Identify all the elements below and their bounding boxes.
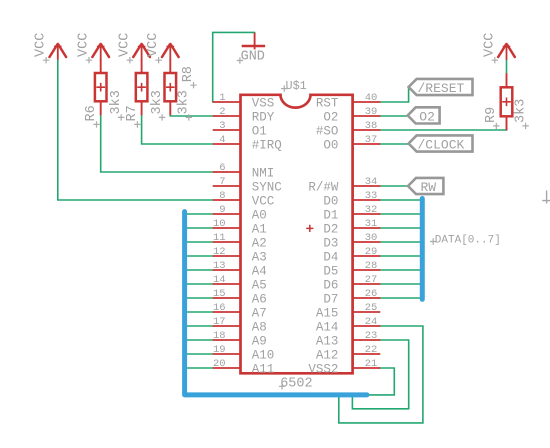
svg-text:33: 33 — [365, 190, 378, 202]
svg-text:U$1: U$1 — [286, 79, 307, 93]
svg-text:D0: D0 — [323, 194, 338, 208]
pin 23 (A13) — [316, 330, 380, 348]
svg-text:14: 14 — [213, 274, 226, 286]
power VCC symbol PWR2 — [92, 43, 109, 60]
svg-text:30: 30 — [365, 232, 378, 244]
svg-text:D7: D7 — [323, 292, 338, 306]
bus DATA[0..7] (right data bus) — [420, 199, 425, 300]
pin 2 (RDY) — [213, 106, 275, 124]
svg-text:/CLOCK: /CLOCK — [418, 138, 465, 153]
svg-text:VCC: VCC — [117, 33, 132, 57]
pin 9 (A0) — [213, 204, 267, 222]
svg-text:A0: A0 — [252, 208, 267, 222]
svg-text:/RESET: /RESET — [418, 81, 465, 96]
svg-text:RDY: RDY — [252, 110, 275, 124]
svg-text:11: 11 — [213, 232, 226, 244]
wire net pin 40 (RST) to /RESET flag — [380, 88, 408, 103]
svg-text:3: 3 — [219, 120, 225, 132]
svg-text:VSS2: VSS2 — [308, 362, 338, 376]
svg-text:2: 2 — [219, 106, 225, 118]
pin 30 (D3) — [323, 232, 380, 250]
svg-text:A11: A11 — [252, 362, 275, 376]
ground GND symbol — [242, 33, 265, 50]
wire net A8 pin to address bus — [186, 325, 213, 327]
power VCC symbol PWR5 — [498, 43, 515, 60]
wire net D7 pin to DATA bus — [380, 297, 420, 299]
svg-text:6: 6 — [219, 162, 225, 174]
svg-text:16: 16 — [213, 302, 226, 314]
wire net D5 pin to DATA bus — [380, 269, 420, 271]
pin 7 (SYNC) — [213, 176, 282, 194]
svg-text:25: 25 — [365, 302, 378, 314]
svg-text:8: 8 — [219, 190, 225, 202]
svg-text:VSS: VSS — [252, 96, 275, 110]
svg-text:15: 15 — [213, 288, 226, 300]
flag RW — [408, 178, 443, 195]
svg-text:A15: A15 — [316, 306, 339, 320]
svg-text:3k3: 3k3 — [177, 90, 192, 114]
pin 17 (A8) — [213, 316, 267, 334]
svg-text:12: 12 — [213, 246, 226, 258]
svg-text:38: 38 — [365, 120, 378, 132]
svg-text:R/#W: R/#W — [308, 180, 339, 194]
svg-text:R7: R7 — [125, 105, 140, 121]
svg-text:VCC: VCC — [34, 33, 49, 57]
pin 1 (VSS) — [213, 92, 275, 110]
svg-text:7: 7 — [219, 176, 225, 188]
svg-text:A2: A2 — [252, 236, 267, 250]
pin 3 (O1) — [213, 120, 267, 138]
svg-text:R6: R6 — [84, 105, 99, 121]
svg-text:13: 13 — [213, 260, 226, 272]
wire net R7 to pin 4 (#IRQ) — [142, 115, 213, 144]
svg-text:A3: A3 — [252, 250, 267, 264]
wire net R8 to pin 2 (RDY) — [170, 115, 212, 116]
pin 27 (D6) — [323, 274, 380, 292]
wire net D0 pin to DATA bus — [380, 199, 420, 201]
wire net pin 24 (A14) loop to bus bottom — [339, 326, 423, 423]
svg-text:22: 22 — [365, 344, 378, 356]
pin 6 (NMI) — [213, 162, 275, 180]
pin 29 (D4) — [323, 246, 380, 264]
pin 12 (A3) — [213, 246, 267, 264]
pin 10 (A1) — [213, 218, 267, 236]
wire net D1 pin to DATA bus — [380, 213, 420, 215]
pin 19 (A10) — [213, 344, 275, 362]
svg-text:26: 26 — [365, 288, 378, 300]
wire net A3 pin to address bus — [186, 255, 213, 257]
svg-text:24: 24 — [365, 316, 378, 328]
svg-text:31: 31 — [365, 218, 378, 230]
wire net A9 pin to address bus — [186, 339, 213, 341]
svg-text:A10: A10 — [252, 348, 275, 362]
svg-text:37: 37 — [365, 134, 378, 146]
wire net A11 pin to address bus — [186, 367, 213, 369]
svg-text:A13: A13 — [316, 334, 339, 348]
pin 28 (D5) — [323, 260, 380, 278]
resistor R6 — [95, 59, 107, 115]
wire net A5 pin to address bus — [186, 283, 213, 285]
svg-text:RW: RW — [421, 180, 437, 195]
svg-text:29: 29 — [365, 246, 378, 258]
power VCC symbol PWR4 — [162, 43, 179, 60]
wire net D2 pin to DATA bus — [380, 227, 420, 229]
wire GND net to pin 1 (VSS) — [213, 32, 255, 102]
svg-text:O2: O2 — [323, 110, 338, 124]
svg-text:20: 20 — [213, 358, 226, 370]
svg-text:R9: R9 — [484, 107, 499, 123]
svg-text:10: 10 — [213, 218, 226, 230]
wire net A10 pin to address bus — [186, 353, 213, 355]
wire net A4 pin to address bus — [186, 269, 213, 271]
svg-text:3k3: 3k3 — [513, 99, 528, 123]
svg-text:23: 23 — [365, 330, 378, 342]
svg-text:A6: A6 — [252, 292, 267, 306]
svg-text:O2: O2 — [419, 110, 435, 125]
svg-text:A12: A12 — [316, 348, 339, 362]
svg-text:39: 39 — [365, 106, 378, 118]
svg-text:A1: A1 — [252, 222, 267, 236]
pin 18 (A9) — [213, 330, 267, 348]
svg-text:#SO: #SO — [316, 124, 339, 138]
svg-text:D3: D3 — [323, 236, 338, 250]
wire net A6 pin to address bus — [186, 297, 213, 299]
svg-text:RST: RST — [316, 96, 339, 110]
svg-text:D1: D1 — [323, 208, 338, 222]
svg-text:6502: 6502 — [280, 377, 312, 392]
svg-text:32: 32 — [365, 204, 378, 216]
svg-text:VCC: VCC — [77, 33, 92, 57]
wire net pin 23 (A13) loop to bus bottom — [352, 340, 408, 409]
svg-text:3k3: 3k3 — [150, 90, 165, 114]
flag O2 — [408, 107, 440, 124]
pin 15 (A6) — [213, 288, 267, 306]
origin cross U1 — [306, 225, 313, 232]
wire net D6 pin to DATA bus — [380, 283, 420, 285]
pin 34 (R/#W) — [308, 176, 380, 194]
wire net pin 34 (R/#W) to RW flag — [380, 185, 408, 187]
svg-text:VCC: VCC — [482, 33, 497, 57]
wire net VCC arrow to R9 — [506, 60, 508, 74]
svg-text:9: 9 — [219, 204, 225, 216]
wire net A2 pin to address bus — [186, 241, 213, 243]
svg-text:3k3: 3k3 — [109, 90, 124, 114]
pin 33 (D0) — [323, 190, 380, 208]
pin 22 (A12) — [316, 344, 380, 362]
svg-text:A4: A4 — [252, 264, 267, 278]
wire net A0 pin to address bus — [186, 213, 213, 215]
pin 38 (#SO) — [316, 120, 380, 138]
wire net pin 21 (VSS2) to bus end — [367, 368, 394, 395]
svg-text:1: 1 — [219, 92, 225, 104]
svg-text:18: 18 — [213, 330, 226, 342]
svg-text:A5: A5 — [252, 278, 267, 292]
wire net D3 pin to DATA bus — [380, 241, 420, 243]
pin 20 (A11) — [213, 358, 275, 376]
pin 39 (O2) — [323, 106, 380, 124]
power VCC symbol PWR3 — [133, 43, 150, 60]
pin 21 (VSS2) — [308, 358, 380, 376]
svg-text:4: 4 — [219, 134, 225, 146]
svg-text:O0: O0 — [323, 138, 338, 152]
wire net pin 39 (O2) to O2 flag — [380, 115, 407, 117]
pin 31 (D2) — [323, 218, 380, 236]
wire net R6 to pin 6 (NMI) — [101, 115, 213, 172]
pin 14 (A5) — [213, 274, 267, 292]
svg-text:D5: D5 — [323, 264, 338, 278]
svg-text:GND: GND — [241, 50, 265, 65]
flag /CLOCK — [409, 135, 473, 152]
bus A[0..11] (left address bus) — [185, 212, 367, 395]
pin 32 (D1) — [323, 204, 380, 222]
pin 25 (A15) — [316, 302, 380, 320]
svg-text:VCC: VCC — [146, 33, 161, 57]
wire net D4 pin to DATA bus — [380, 255, 420, 257]
svg-text:VCC: VCC — [252, 194, 275, 208]
resistor R8 — [165, 59, 177, 115]
svg-text:21: 21 — [365, 358, 378, 370]
pin 37 (O0) — [323, 134, 380, 152]
svg-text:A8: A8 — [252, 320, 267, 334]
svg-text:A7: A7 — [252, 306, 267, 320]
wire net pin 37 (O0) to /CLOCK flag — [380, 143, 408, 145]
svg-text:D6: D6 — [323, 278, 338, 292]
node mark (clipped label at right edge) — [542, 191, 550, 204]
svg-text:40: 40 — [365, 92, 378, 104]
pin 16 (A7) — [213, 302, 267, 320]
wire net pin 38 (#SO) to R9 — [380, 129, 506, 130]
svg-text:NMI: NMI — [252, 166, 275, 180]
wire net A1 pin to address bus — [186, 227, 213, 229]
pin 24 (A14) — [316, 316, 380, 334]
svg-text:17: 17 — [213, 316, 226, 328]
svg-text:D4: D4 — [323, 250, 338, 264]
svg-text:A9: A9 — [252, 334, 267, 348]
flag /RESET — [409, 79, 473, 96]
svg-text:DATA[0..7]: DATA[0..7] — [435, 234, 501, 246]
svg-text:O1: O1 — [252, 124, 267, 138]
svg-text:28: 28 — [365, 260, 378, 272]
pin 40 (RST) — [316, 92, 380, 110]
wire VCC net from PWR1 to pin 8 — [58, 60, 213, 201]
resistor R7 — [136, 59, 148, 115]
wire net A7 pin to address bus — [186, 311, 213, 313]
svg-text:D2: D2 — [323, 222, 338, 236]
svg-text:A14: A14 — [316, 320, 339, 334]
svg-text:19: 19 — [213, 344, 226, 356]
svg-text:34: 34 — [365, 176, 378, 188]
pin 11 (A2) — [213, 232, 267, 250]
resistor R9 — [501, 73, 513, 130]
pin 8 (VCC) — [213, 190, 275, 208]
svg-text:SYNC: SYNC — [252, 180, 282, 194]
pin 13 (A4) — [213, 260, 267, 278]
svg-text:R8: R8 — [181, 66, 196, 82]
power VCC symbol PWR1 — [50, 43, 67, 60]
pin 4 (#IRQ) — [213, 134, 282, 152]
svg-text:#IRQ: #IRQ — [252, 138, 282, 152]
IC U1 6502 body — [241, 95, 353, 374]
pin 26 (D7) — [323, 288, 380, 306]
svg-text:27: 27 — [365, 274, 378, 286]
